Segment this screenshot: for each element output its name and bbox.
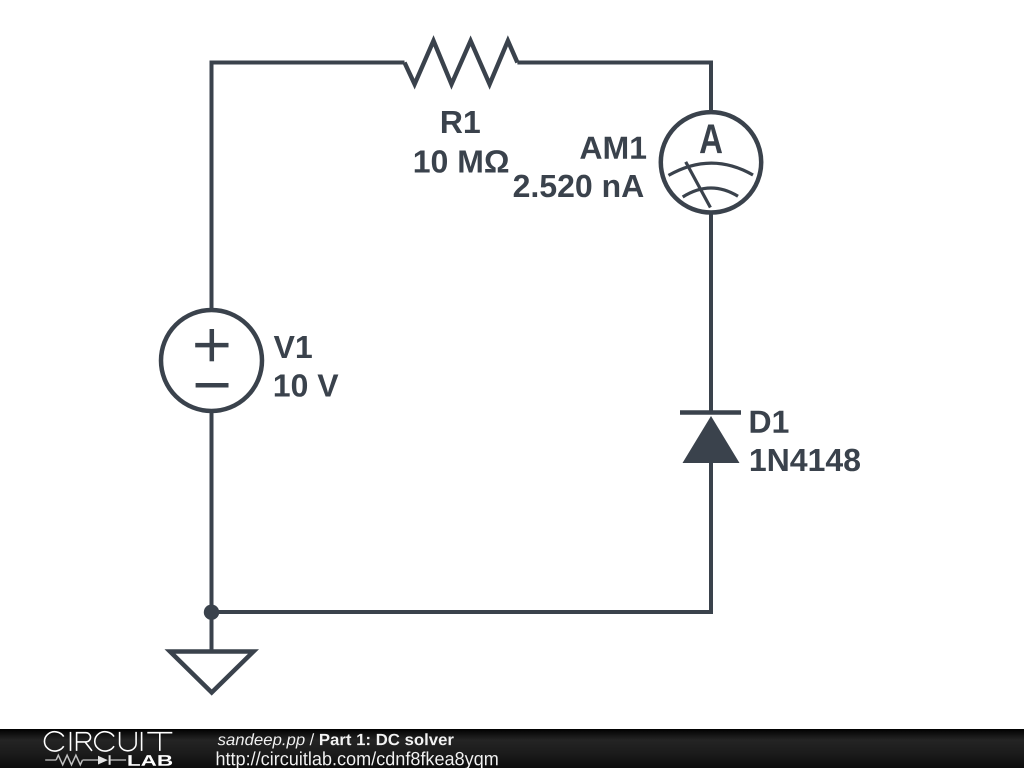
ground — [170, 652, 254, 693]
CircuitLab logo: CIRCUIT wordmark — [44, 732, 172, 751]
wire: top horizontal from resistor + right vertical to ammeter — [517, 63, 711, 113]
footer bar — [0, 729, 1024, 768]
label 1N4148 — [751, 449, 860, 472]
CircuitLab logo: resistor-diode glyph — [45, 755, 126, 765]
wire: V1 bottom to junction — [210, 411, 214, 612]
label V1 — [274, 336, 312, 358]
wire: ammeter to diode — [709, 213, 713, 413]
voltage source V1 — [161, 310, 262, 411]
label R1 — [442, 111, 480, 133]
footer url line 2 — [217, 751, 498, 768]
resistor R1 — [405, 41, 518, 84]
label 2.520 nA — [514, 175, 644, 198]
wire: left vertical + top horizontal to resistor — [212, 63, 405, 311]
node junction dot — [204, 605, 219, 620]
diode D1 — [680, 413, 741, 464]
label 10 MΩ — [415, 150, 508, 173]
label 10 V — [275, 374, 339, 397]
footer attribution line 1 — [218, 733, 454, 748]
CircuitLab logo: LAB — [128, 755, 172, 766]
wire: diode down, bottom horizontal to junction — [212, 463, 712, 612]
label AM1 — [580, 137, 646, 159]
wire: ground stub — [210, 612, 214, 652]
ammeter AM1 — [661, 112, 761, 212]
label D1 — [751, 411, 789, 433]
